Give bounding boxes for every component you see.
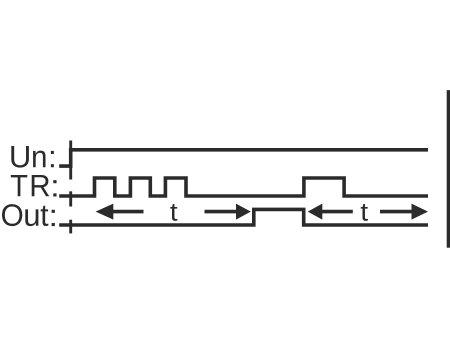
arrow right t2	[380, 204, 428, 220]
label Out	[2, 204, 55, 226]
arrow right t1	[205, 204, 251, 220]
Out output waveform	[59, 209, 428, 225]
TR trigger waveform	[59, 178, 428, 196]
Un supply waveform	[59, 150, 428, 166]
t label 1	[170, 204, 177, 221]
label TR	[11, 175, 57, 197]
right vertical bar	[447, 90, 450, 248]
t label 2	[361, 204, 368, 221]
arrow left t1	[96, 204, 144, 220]
dashed switch-on marker line	[69, 141, 72, 234]
label Un	[11, 146, 54, 168]
arrow left t2	[308, 204, 353, 220]
